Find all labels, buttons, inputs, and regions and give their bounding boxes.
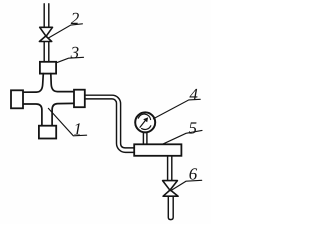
wire pipe below valve 6 [168,197,173,220]
gauge holder block 5 [134,144,181,156]
cross fitting 1 body: bottom-left corner [23,104,42,125]
svg-text:4: 4 [189,85,198,104]
left union nut of cross [11,90,23,108]
gauge needle [140,120,146,128]
gauge dial arc upper [138,114,150,119]
wire pipe valve2 to union 3 [44,42,49,62]
union nut 3 (top block of cross) [40,62,56,74]
valve 2 (shut-off valve, bowtie symbol) [39,27,52,41]
pressure gauge 4 (manometer circle) [135,112,155,132]
wire gauge stem [143,132,147,144]
gauge dial arc lower [142,126,151,130]
svg-text:5: 5 [189,118,198,137]
svg-text:6: 6 [189,164,198,183]
svg-text:2: 2 [71,9,80,28]
bottom union nut of cross [39,126,56,139]
svg-text:3: 3 [70,43,80,62]
leader line for label 6 [171,180,202,191]
svg-text:1: 1 [73,119,82,138]
right union nut of cross [74,90,85,108]
valve 6 (shut-off valve, bowtie symbol) [163,181,179,197]
leader line for label 2 [48,24,82,38]
leader line for label 5 [163,130,202,144]
wire supply pipe top (double line) [44,4,49,27]
wire impulse pipe from right nut with two bends to block 5 [85,95,134,152]
cross fitting 1 body: top-right corner [51,74,74,92]
cross fitting 1 body: top-left corner [23,74,43,93]
leader line for label 1 [48,108,86,135]
leader line for label 3 [56,57,83,63]
cross fitting 1 body: bottom-right corner [52,103,74,125]
leader line for label 4 [153,99,200,119]
wire drain pipe below block 5 [168,156,172,180]
